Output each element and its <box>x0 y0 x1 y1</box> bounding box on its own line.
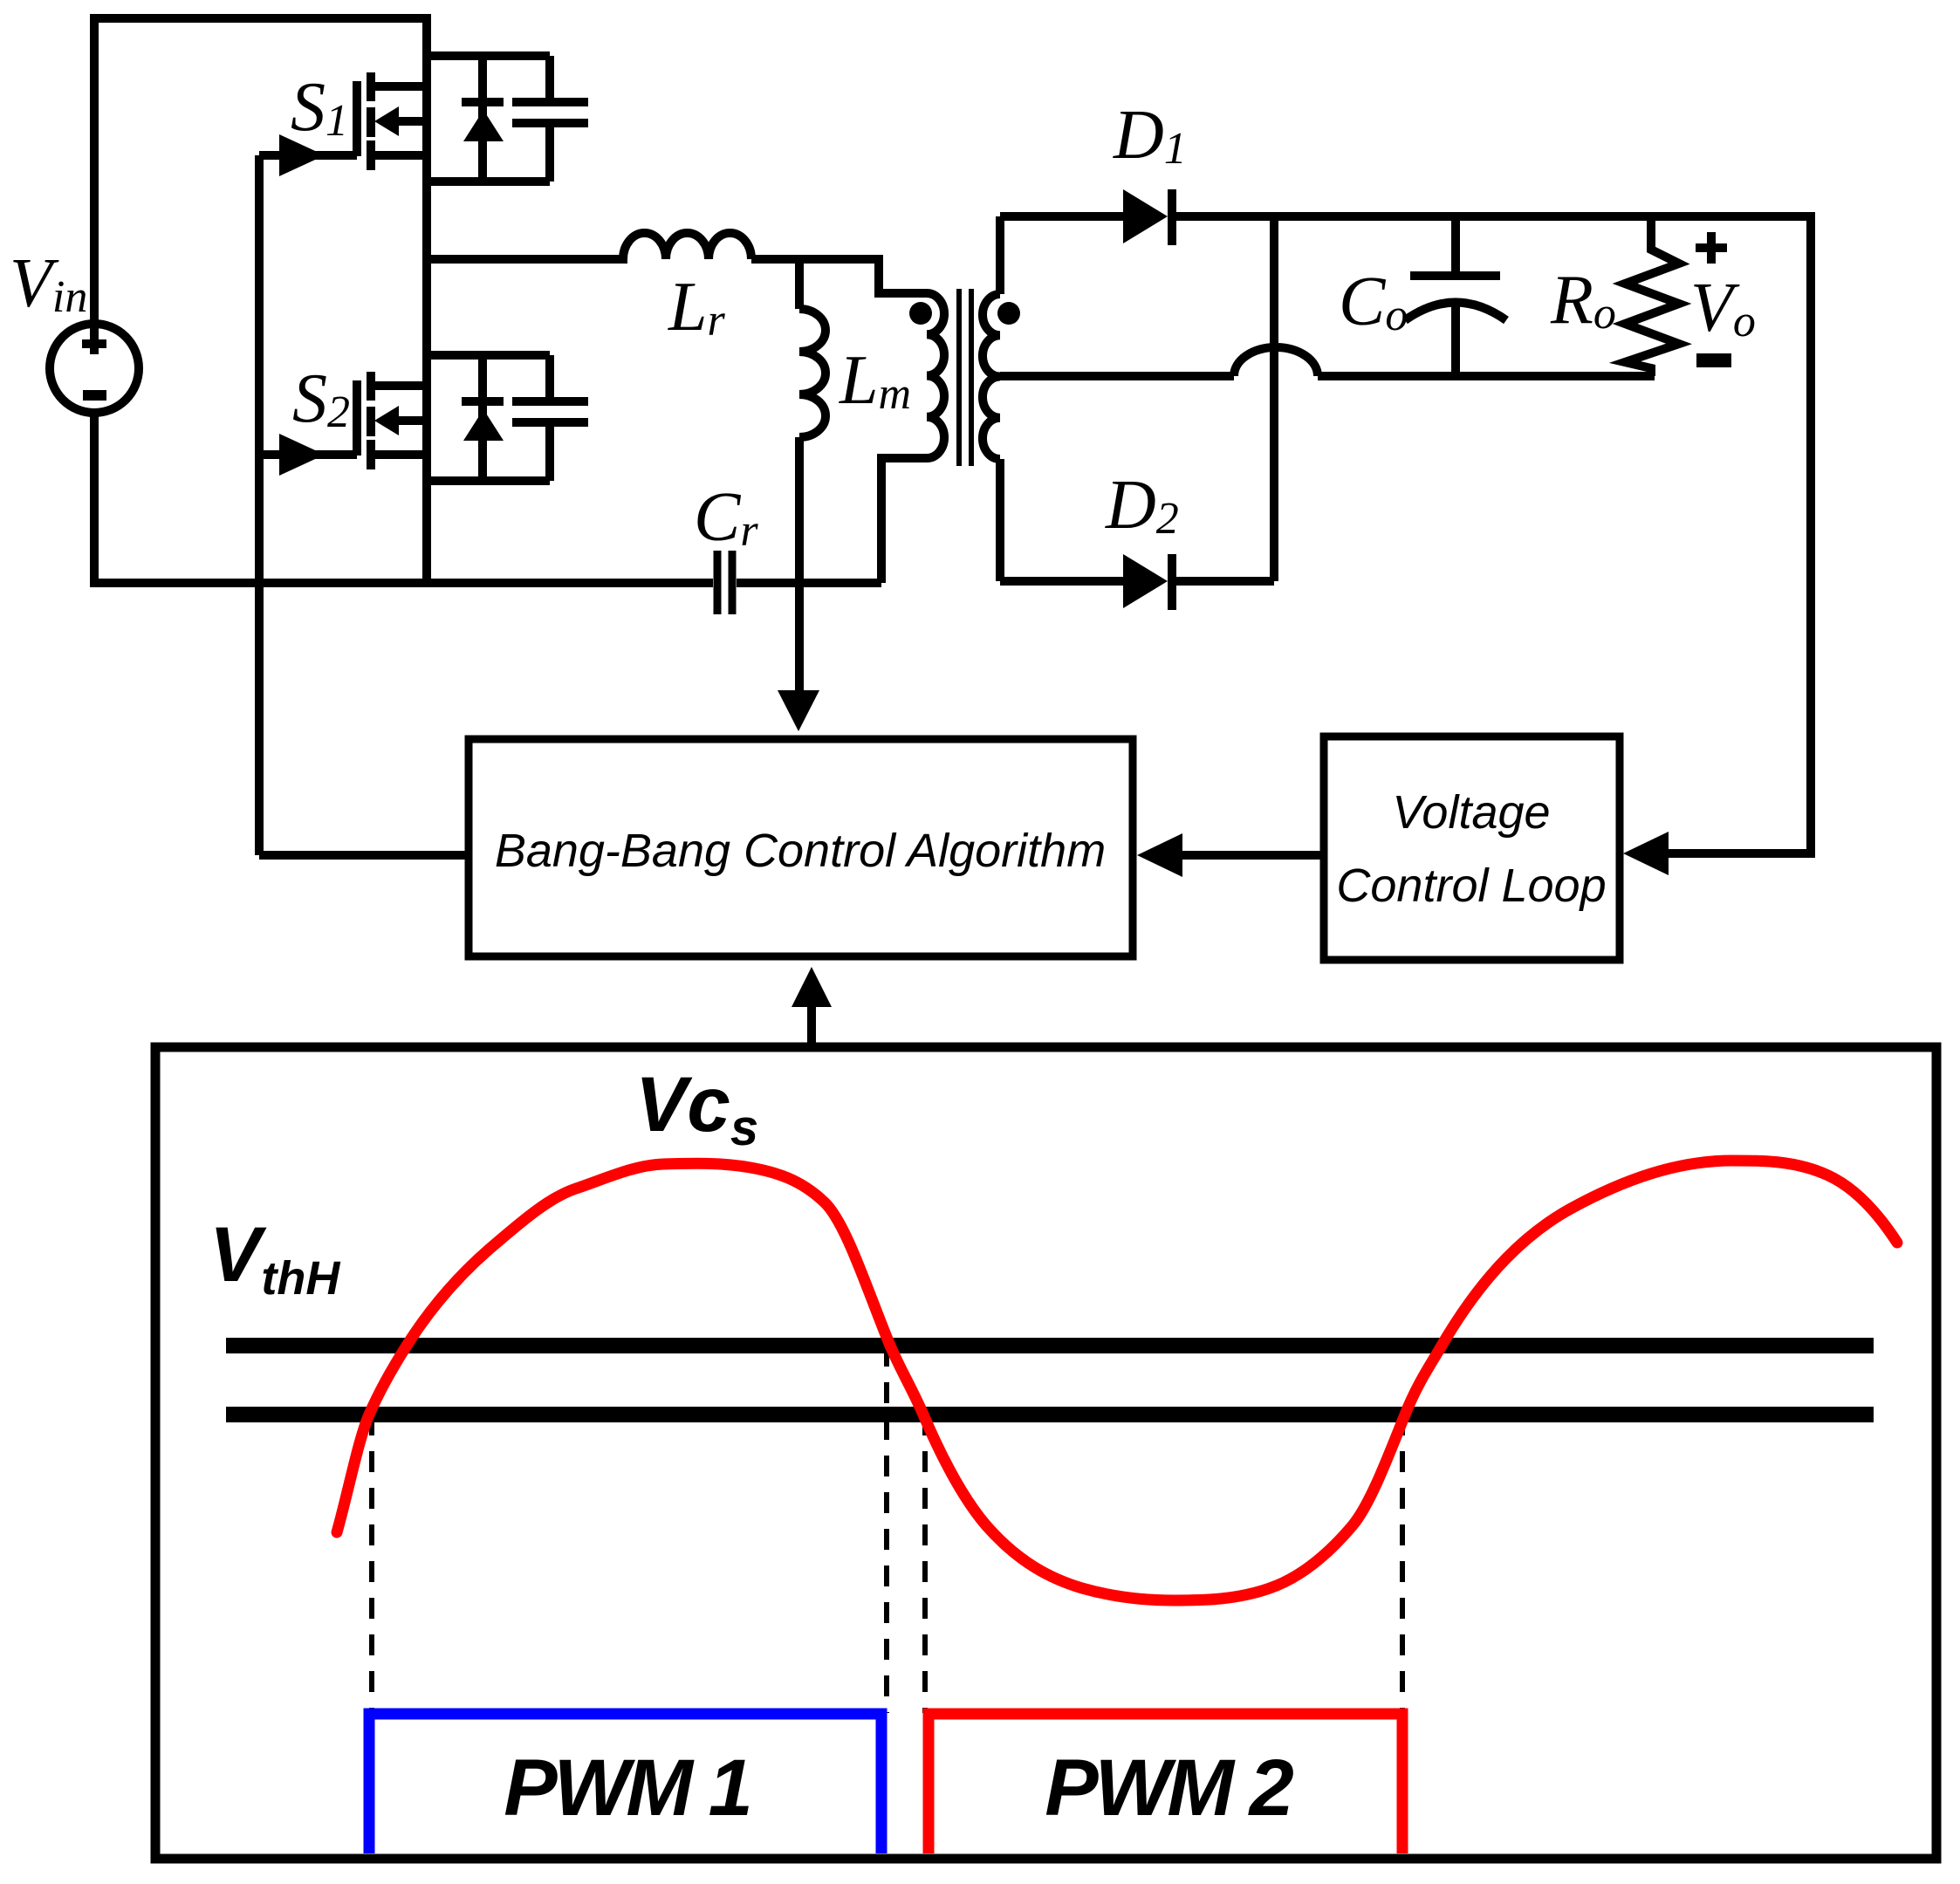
svg-text:Control Loop: Control Loop <box>1336 860 1606 912</box>
svg-text:PWM 1: PWM 1 <box>504 1744 750 1833</box>
svg-text:Voltage: Voltage <box>1392 786 1550 839</box>
svg-text:Bang-Bang Control Algorithm: Bang-Bang Control Algorithm <box>495 825 1106 877</box>
svg-text:PWM 2: PWM 2 <box>1045 1744 1293 1833</box>
